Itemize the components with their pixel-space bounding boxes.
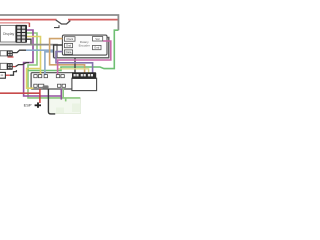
svg-text:Data: Data <box>66 50 72 54</box>
svg-text:Gnd: Gnd <box>94 46 100 50</box>
svg-text:Gnd: Gnd <box>66 44 72 48</box>
svg-text:Vcc: Vcc <box>95 37 100 41</box>
svg-text:ESP: ESP <box>24 102 32 107</box>
svg-text:Encoder: Encoder <box>79 43 90 47</box>
svg-text:Display: Display <box>3 32 14 36</box>
svg-text:Clock: Clock <box>66 37 73 41</box>
